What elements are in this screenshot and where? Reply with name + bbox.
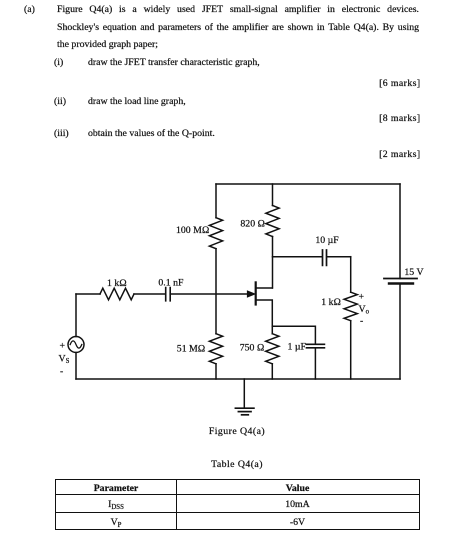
- svg-text:0.1 nF: 0.1 nF: [158, 278, 184, 289]
- svg-text:100 MΩ: 100 MΩ: [176, 225, 210, 236]
- svg-text:15 V: 15 V: [404, 267, 423, 278]
- svg-text:-: -: [60, 366, 63, 377]
- svg-text:-: -: [360, 316, 363, 327]
- svg-text:+: +: [60, 341, 66, 352]
- svg-text:750 Ω: 750 Ω: [240, 343, 265, 354]
- svg-text:+: +: [359, 292, 365, 303]
- svg-text:1 kΩ: 1 kΩ: [321, 297, 341, 308]
- svg-text:1 µF: 1 µF: [288, 342, 307, 353]
- svg-text:1 kΩ: 1 kΩ: [107, 278, 127, 289]
- svg-text:VS: VS: [59, 354, 70, 366]
- svg-text:820 Ω: 820 Ω: [240, 219, 265, 230]
- svg-text:10 µF: 10 µF: [315, 235, 339, 246]
- svg-text:Vo: Vo: [359, 304, 370, 316]
- svg-text:51 MΩ: 51 MΩ: [177, 343, 206, 354]
